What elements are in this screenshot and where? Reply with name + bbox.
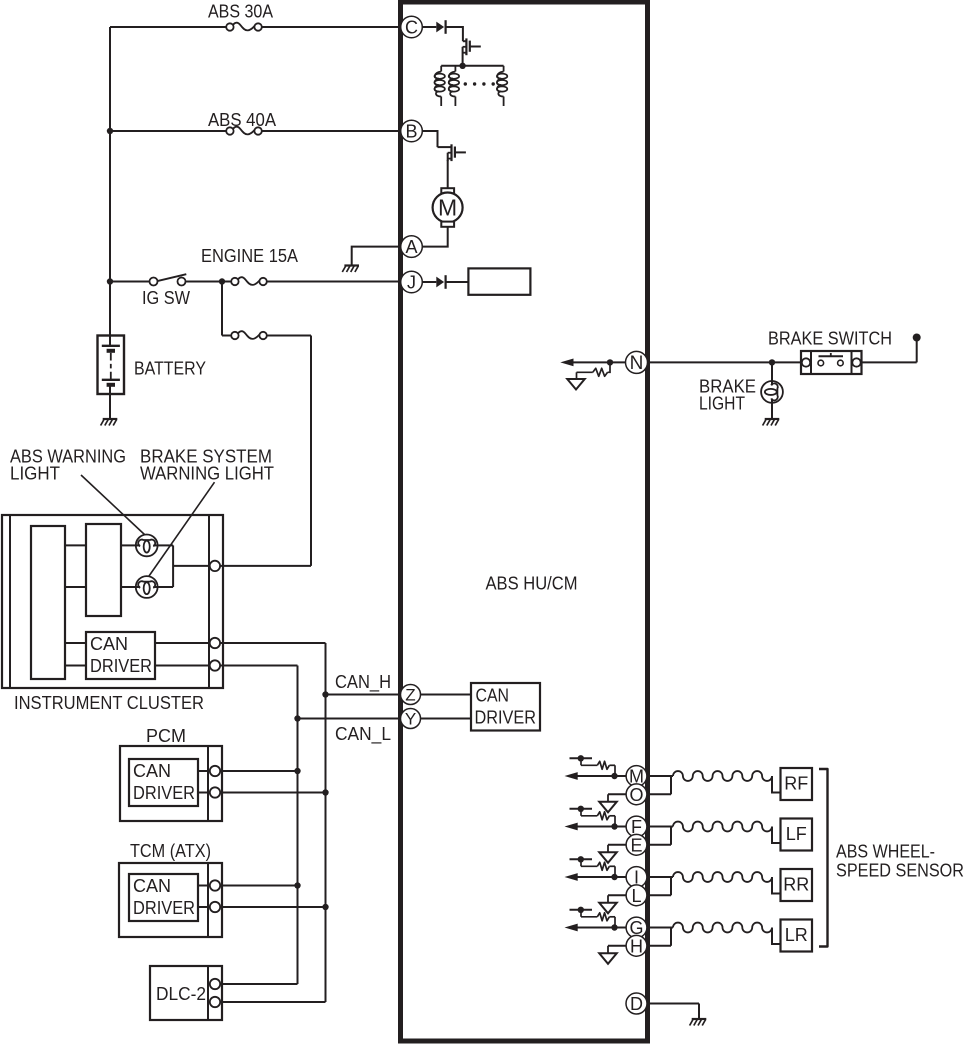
svg-text:N: N bbox=[630, 353, 644, 374]
svg-text:CAN: CAN bbox=[90, 634, 128, 654]
svg-text:ABS HU/CM: ABS HU/CM bbox=[486, 574, 578, 594]
svg-text:INSTRUMENT CLUSTER: INSTRUMENT CLUSTER bbox=[14, 693, 204, 713]
svg-text:DLC-2: DLC-2 bbox=[156, 984, 206, 1004]
svg-text:LIGHT: LIGHT bbox=[699, 394, 745, 414]
svg-text:WARNING LIGHT: WARNING LIGHT bbox=[140, 464, 274, 484]
svg-text:BRAKE SWITCH: BRAKE SWITCH bbox=[768, 329, 892, 349]
svg-text:L: L bbox=[631, 886, 641, 906]
svg-text:B: B bbox=[405, 121, 417, 141]
svg-text:DRIVER: DRIVER bbox=[133, 898, 195, 918]
svg-text:PCM: PCM bbox=[146, 726, 186, 746]
svg-text:CAN: CAN bbox=[133, 876, 171, 896]
svg-text:H: H bbox=[630, 936, 643, 956]
svg-text:E: E bbox=[630, 835, 642, 855]
svg-text:ABS 30A: ABS 30A bbox=[208, 2, 273, 22]
svg-text:D: D bbox=[630, 994, 643, 1014]
svg-text:RF: RF bbox=[784, 774, 808, 794]
svg-text:M: M bbox=[438, 195, 457, 221]
svg-text:ABS 40A: ABS 40A bbox=[208, 110, 276, 130]
svg-text:ENGINE 15A: ENGINE 15A bbox=[201, 246, 298, 266]
svg-text:DRIVER: DRIVER bbox=[90, 656, 152, 676]
svg-text:Z: Z bbox=[405, 686, 415, 705]
svg-text:A: A bbox=[405, 237, 417, 257]
svg-text:DRIVER: DRIVER bbox=[133, 783, 195, 803]
svg-text:Y: Y bbox=[405, 710, 416, 729]
svg-text:LF: LF bbox=[786, 824, 807, 844]
svg-text:ABS WHEEL-: ABS WHEEL- bbox=[836, 842, 935, 862]
svg-text:LIGHT: LIGHT bbox=[10, 464, 60, 484]
svg-text:CAN_H: CAN_H bbox=[335, 672, 391, 693]
svg-text:SPEED SENSOR: SPEED SENSOR bbox=[836, 861, 964, 881]
svg-text:LR: LR bbox=[785, 925, 808, 945]
svg-text:BATTERY: BATTERY bbox=[134, 359, 206, 379]
svg-text:CAN_L: CAN_L bbox=[335, 724, 391, 745]
svg-text:C: C bbox=[405, 17, 418, 37]
svg-text:TCM (ATX): TCM (ATX) bbox=[130, 841, 211, 861]
svg-text:DRIVER: DRIVER bbox=[475, 707, 537, 727]
svg-text:CAN: CAN bbox=[476, 685, 510, 705]
svg-text:O: O bbox=[629, 785, 643, 805]
svg-text:RR: RR bbox=[783, 875, 809, 895]
svg-text:J: J bbox=[407, 272, 416, 292]
svg-text:CAN: CAN bbox=[133, 761, 171, 781]
svg-text:IG SW: IG SW bbox=[142, 288, 190, 308]
